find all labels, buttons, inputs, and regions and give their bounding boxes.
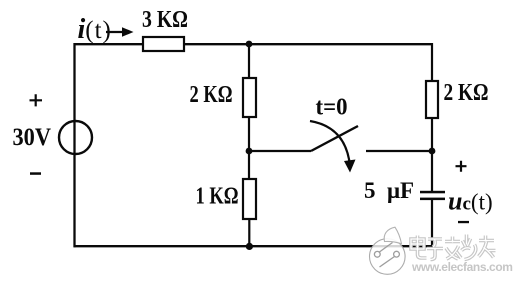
- svg-text:i(t): i(t): [78, 14, 112, 45]
- capacitor C1 bottom plate: [420, 198, 445, 201]
- wire middle branch center: [248, 116, 250, 179]
- svg-text:uc(t): uc(t): [448, 187, 493, 216]
- wire right vertical lower: [431, 198, 433, 247]
- switch S1 closing arc arrow: [310, 121, 350, 166]
- watermark chinese text 电子发烧友: [411, 235, 496, 260]
- resistor R1 3K ohm body: [143, 37, 184, 51]
- wire switch left segment: [249, 150, 311, 152]
- wire switch right segment: [366, 150, 432, 152]
- watermark circuit trace: [379, 243, 393, 253]
- node A top junction dot: [246, 41, 253, 48]
- wire middle branch upper: [248, 43, 250, 78]
- svg-text:www.elecfans.com: www.elecfans.com: [411, 260, 513, 274]
- current arrowhead: [122, 27, 134, 37]
- svg-text:2 KΩ: 2 KΩ: [190, 82, 233, 108]
- svg-text:3 KΩ: 3 KΩ: [142, 7, 188, 33]
- resistor R4 2K ohm right body: [426, 81, 438, 118]
- wire right vertical middle: [431, 117, 433, 192]
- capacitor C1 top plate: [420, 191, 445, 194]
- node D right junction dot: [429, 148, 436, 155]
- watermark leaf: [384, 227, 401, 244]
- node B middle junction dot: [246, 148, 253, 155]
- svg-text:1 KΩ: 1 KΩ: [196, 184, 239, 210]
- source plus sign: [30, 94, 43, 106]
- switch S1 arrowhead: [344, 160, 356, 173]
- switch S1 blade: [311, 126, 358, 151]
- wire right vertical upper: [431, 43, 433, 81]
- resistor R3 1K ohm body: [243, 179, 256, 219]
- wire middle branch lower: [248, 218, 250, 247]
- svg-text:t=0: t=0: [316, 95, 348, 121]
- svg-text:5 μF: 5 μF: [364, 178, 414, 203]
- watermark logo circle: [370, 227, 406, 274]
- source minus sign: [30, 172, 41, 175]
- svg-text:30V: 30V: [13, 124, 52, 151]
- voltage source V1 circle: [59, 121, 92, 154]
- resistor R2 2K ohm middle body: [243, 78, 256, 117]
- wire left vertical: [73, 43, 75, 247]
- node C bottom junction dot: [246, 243, 253, 250]
- capacitor minus sign: [458, 221, 469, 223]
- current arrow shaft: [106, 31, 126, 33]
- wire top horizontal: [74, 43, 432, 45]
- capacitor plus sign: [456, 161, 467, 172]
- svg-text:2 KΩ: 2 KΩ: [444, 80, 489, 106]
- wire bottom horizontal: [74, 245, 434, 247]
